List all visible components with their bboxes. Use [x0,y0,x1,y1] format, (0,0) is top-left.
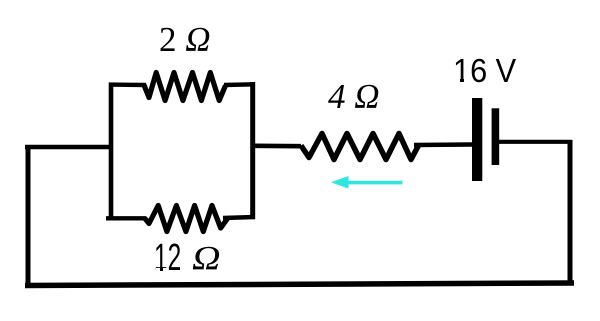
wire: top-right stub from 2-ohm resistor [224,82,255,87]
wire: parallel block left vertical [109,83,114,221]
label: 2 ohm value [159,20,211,60]
resistor R1 2-ohm zigzag [144,73,226,101]
label: 16 V battery value [453,52,516,90]
label: 4 ohm value [328,77,380,117]
current direction arrow (cyan) [331,176,403,189]
label: 12 ohm omega [192,240,221,278]
resistor R2 12-ohm zigzag [145,206,228,232]
patch: remove serif foot of "1" in 16 V label [455,79,470,82]
wire: parallel block right vertical [250,82,255,219]
wire: bottom-right stub from 12-ohm resistor [223,217,255,218]
patch: remove serif foot of "1" in 12 label [156,268,168,272]
wire: mid-left horizontal to parallel pair [25,145,113,150]
label: 12 ohm value [154,237,181,280]
wire: battery to right outer vertical [499,140,572,144]
wire: 4-ohm resistor to battery [414,142,472,147]
battery B1 right plate (short) [492,108,500,165]
wire: middle horizontal to 4-ohm resistor [253,144,301,149]
battery B1 left plate (long) [472,98,482,181]
wire: bottom horizontal [25,283,574,286]
wire: right outer vertical [568,140,573,285]
resistor R3 4-ohm zigzag [301,134,419,160]
wire: bottom-left stub to 12-ohm resistor [106,216,146,220]
wire: top-left stub to 2-ohm resistor [109,82,146,87]
wire: left outer vertical [26,146,31,288]
